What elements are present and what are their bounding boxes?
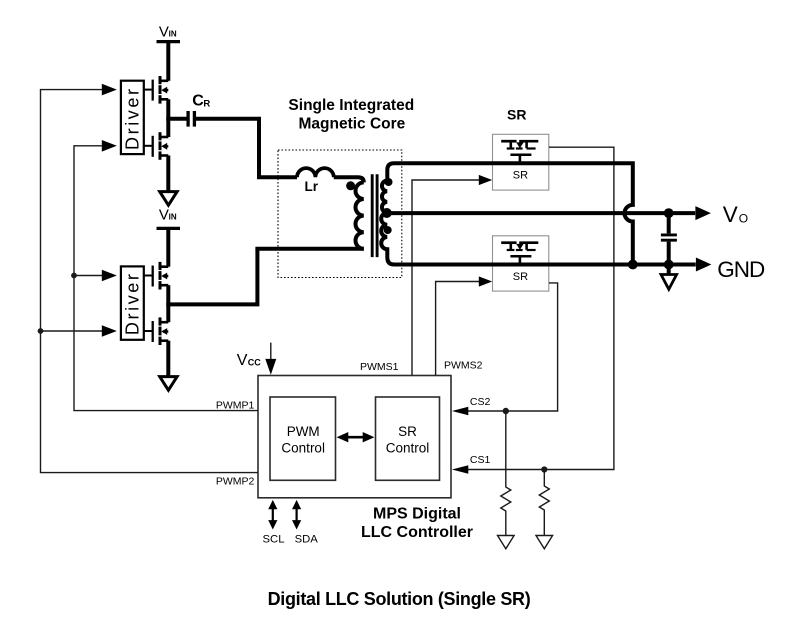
ground below R2	[536, 536, 553, 549]
svg-text:Magnetic Core: Magnetic Core	[298, 116, 405, 133]
svg-text:V: V	[159, 207, 169, 224]
driver U2 box	[121, 266, 144, 339]
dashed box: single integrated magnetic core	[278, 150, 402, 278]
transistor Q2	[144, 132, 169, 160]
arrow into driver U2 upper	[102, 270, 117, 282]
driver U1 box	[121, 81, 144, 154]
svg-text:LLC Controller: LLC Controller	[361, 524, 473, 541]
node GND cap junction	[664, 260, 674, 270]
wire Q3 source to Q4 drain	[166, 285, 170, 322]
svg-text:Single Integrated: Single Integrated	[288, 97, 414, 114]
svg-text:SR: SR	[507, 107, 526, 123]
svg-text:PWMS2: PWMS2	[444, 359, 483, 371]
svg-text:V: V	[159, 23, 169, 40]
svg-text:Driver: Driver	[123, 86, 143, 150]
wire lower switch node to transformer return	[166, 249, 257, 305]
node PWMP1 junction	[71, 273, 77, 279]
arrow CS1 into controller	[452, 465, 468, 473]
svg-text:Digital LLC Solution (Single S: Digital LLC Solution (Single SR)	[268, 589, 531, 609]
arrow into driver U1 lower	[102, 140, 117, 152]
VIN rail 1 bar	[157, 40, 181, 43]
svg-text:SR: SR	[398, 424, 417, 439]
svg-text:MPS Digital: MPS Digital	[373, 505, 461, 522]
svg-text:SR: SR	[513, 169, 528, 181]
node secondary bottom dot	[384, 226, 392, 234]
wire PWMP1 branch to driver U2	[74, 275, 102, 277]
svg-text:Lr: Lr	[305, 179, 319, 194]
wire to output ground	[667, 265, 671, 274]
wire PWMS2	[436, 282, 479, 376]
SR block SR2 box	[493, 236, 549, 291]
SDA double arrow	[296, 508, 298, 521]
svg-text:V: V	[723, 202, 738, 227]
svg-text:CC: CC	[248, 358, 261, 368]
svg-text:PWM: PWM	[287, 424, 320, 439]
svg-text:Driver: Driver	[123, 271, 143, 335]
arrow PWMS1 into SR1	[479, 175, 492, 185]
wire GND rail	[394, 263, 696, 267]
wire switch node to capacitor CR	[166, 117, 186, 121]
wire SR1 sense to CS1	[468, 147, 614, 469]
arrow into driver U2 lower	[102, 325, 117, 337]
wire center tap VO rail	[387, 211, 695, 215]
wire VIN1 to Q1 drain	[166, 43, 170, 81]
wire VIN2 to Q3 drain	[166, 230, 170, 267]
wire Lr to primary	[334, 177, 364, 182]
svg-text:SDA: SDA	[295, 533, 319, 545]
VIN rail 2 bar	[157, 227, 181, 230]
node CS1 junction	[541, 466, 547, 472]
svg-text:CS2: CS2	[470, 396, 491, 408]
svg-text:IN: IN	[169, 29, 177, 38]
wire primary bottom return	[255, 247, 363, 251]
svg-text:IN: IN	[169, 212, 177, 221]
SCL double arrow	[272, 508, 274, 521]
wire SR2 sense to CS2	[468, 283, 558, 411]
svg-text:V: V	[237, 352, 248, 369]
VCC arrow	[270, 343, 272, 360]
capacitor Cout	[667, 213, 671, 233]
mosfet icon in SR2	[501, 242, 538, 266]
controller box	[258, 376, 451, 498]
transformer primary winding	[355, 182, 363, 248]
resistor R2	[539, 470, 549, 536]
svg-text:PWMP1: PWMP1	[216, 399, 255, 411]
inductor Lr	[297, 168, 334, 177]
wire PWMP2 branch to driver U2	[41, 330, 103, 332]
mosfet icon in SR1	[501, 140, 538, 164]
node VO cap junction	[664, 208, 674, 218]
wire Q2 source to ground	[166, 156, 170, 192]
node center tap dot	[382, 208, 392, 218]
node SR1 to GND rail	[628, 260, 638, 270]
arrow VO	[695, 206, 711, 220]
SR block SR1 box	[493, 134, 549, 190]
svg-text:Control: Control	[386, 440, 430, 455]
node CS2 junction	[503, 408, 509, 414]
wire Q1 source to Q2 drain	[166, 99, 170, 137]
wire Q4 source to ground	[166, 341, 170, 376]
transformer secondary bottom winding	[381, 213, 394, 265]
node PWMP2 junction	[38, 328, 44, 334]
node primary dot	[346, 181, 355, 190]
wire secondary top to SR1 and down	[394, 163, 633, 264]
node secondary top dot	[385, 178, 393, 186]
resistor R1	[501, 411, 511, 535]
wire PWMP1 net	[74, 146, 258, 411]
svg-text:CS1: CS1	[470, 454, 491, 466]
svg-text:SCL: SCL	[263, 533, 285, 545]
svg-text:O: O	[739, 212, 748, 226]
wire CR to Lr	[196, 119, 297, 178]
wire PWMS1	[412, 180, 479, 376]
svg-text:PWMS1: PWMS1	[360, 361, 399, 373]
svg-text:SR: SR	[513, 271, 528, 283]
svg-text:R: R	[203, 99, 210, 110]
arrow CS2 into controller	[452, 407, 468, 415]
transformer core	[371, 174, 374, 257]
transistor Q4	[144, 317, 169, 345]
ground below R1	[498, 536, 515, 549]
svg-text:GND: GND	[717, 257, 765, 282]
svg-text:Control: Control	[281, 440, 325, 455]
capacitor CR	[186, 111, 189, 127]
arrow PWMS2 into SR2	[479, 276, 492, 286]
transistor Q3	[144, 262, 169, 290]
wire PWMP2 net	[41, 90, 259, 473]
ground under Q4	[160, 377, 177, 391]
PWM-SR double arrow	[346, 436, 365, 439]
ground output	[661, 275, 677, 290]
arrow GND	[696, 258, 712, 272]
svg-text:PWMP2: PWMP2	[216, 475, 255, 487]
arrow into driver U1 upper	[102, 84, 117, 96]
ground under Q2	[160, 192, 177, 206]
PWM Control box	[270, 397, 336, 480]
transformer secondary top winding	[382, 163, 394, 212]
SR Control box	[376, 397, 440, 480]
transistor Q1	[144, 76, 169, 104]
